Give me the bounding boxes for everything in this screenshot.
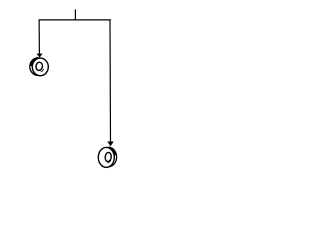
back rim ellipse (30, 58, 46, 75)
arrowhead left (37, 54, 43, 58)
arrowhead right (107, 142, 114, 147)
rim hatch (31, 58, 38, 66)
hole shadow arc (41, 69, 44, 72)
hole shadow arc (108, 160, 111, 163)
hole (105, 152, 112, 162)
hole (35, 62, 43, 71)
wire left vertical (38, 20, 40, 54)
wire top stem (74, 9, 76, 20)
wire horizontal bar (39, 19, 111, 21)
back rim ellipse (101, 147, 117, 166)
face ellipse (32, 58, 48, 76)
rim hatch (109, 148, 116, 156)
roller left (30, 58, 49, 76)
roller right (98, 147, 116, 167)
face ellipse (98, 147, 114, 167)
wire right vertical (109, 20, 112, 142)
